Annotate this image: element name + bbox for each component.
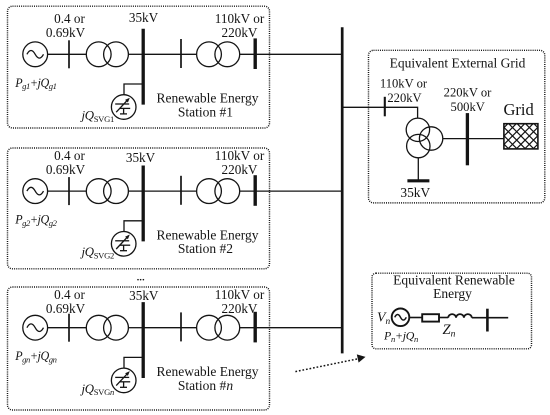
wire — [472, 317, 508, 319]
svg-text:Energy: Energy — [433, 286, 472, 301]
svg-text:35kV: 35kV — [126, 150, 156, 165]
grid equivalent hatched box — [504, 124, 538, 149]
svg-text:0.4 or: 0.4 or — [54, 148, 85, 163]
wire to main bus — [240, 327, 342, 329]
node bus 0.4/0.69kV — [68, 40, 70, 68]
main collector bus — [341, 27, 344, 353]
svg-text:jQSVG2: jQSVG2 — [80, 245, 115, 260]
svg-text:jQSVGn: jQSVGn — [80, 382, 115, 397]
bus 110/220kV station1 — [253, 38, 256, 69]
bus terminal renewable — [486, 309, 489, 332]
svg-text:0.69kV: 0.69kV — [46, 301, 86, 316]
svg-text:110kV or: 110kV or — [215, 287, 265, 302]
svg-text:Station #1: Station #1 — [178, 104, 233, 119]
svg-text:...: ... — [136, 270, 144, 285]
bus 110/220kV station n — [253, 312, 256, 343]
transformer Tn-2 — [197, 315, 222, 340]
svg-text:220kV or: 220kV or — [444, 86, 493, 100]
svg-text:Renewable Energy: Renewable Energy — [156, 91, 258, 106]
svg-text:Equivalent External Grid: Equivalent External Grid — [390, 56, 526, 71]
wire SVG branch — [124, 357, 143, 368]
bus 110/220kV station2 — [253, 175, 256, 206]
svg-text:Pn+jQn: Pn+jQn — [383, 329, 418, 344]
wire to main bus — [240, 190, 342, 192]
svg-text:Grid: Grid — [503, 100, 534, 119]
generator G2 — [23, 179, 48, 204]
svg-text:Renewable Energy: Renewable Energy — [156, 364, 258, 379]
renewable energy station 2 dashed box — [8, 148, 270, 269]
svg-text:Renewable Energy: Renewable Energy — [156, 227, 258, 242]
wire to main bus — [240, 53, 342, 55]
svg-text:110kV or: 110kV or — [215, 11, 265, 26]
inductor Zn — [448, 314, 472, 318]
transformer T2-2 — [197, 179, 222, 204]
renewable energy station n dashed box — [8, 287, 270, 410]
svg-text:220kV: 220kV — [222, 301, 258, 316]
svg-text:110kV or: 110kV or — [215, 148, 265, 163]
wire — [128, 190, 143, 192]
wire SVG branch — [124, 84, 143, 95]
wire from main bus to transformer — [342, 107, 418, 118]
wire SVG branch — [124, 221, 143, 232]
wire — [143, 190, 197, 192]
node bus 0.4/0.69kV — [68, 314, 70, 342]
wire — [409, 317, 422, 319]
wire — [143, 53, 197, 55]
svg-text:jQSVG1: jQSVG1 — [80, 108, 115, 123]
equivalent renewable energy dashed box — [372, 273, 532, 349]
wire to grid bus — [443, 138, 504, 140]
svg-text:Pg1+jQg1: Pg1+jQg1 — [14, 76, 56, 91]
three-winding transformer TE — [406, 118, 429, 141]
wire — [128, 327, 143, 329]
wire — [48, 327, 87, 329]
wire — [128, 53, 143, 55]
impedance Zn box — [422, 314, 439, 321]
generator G1 — [23, 42, 48, 67]
svg-text:35kV: 35kV — [129, 10, 159, 25]
svg-text:Station #n: Station #n — [178, 378, 233, 393]
svg-text:500kV: 500kV — [451, 100, 485, 114]
transformer T1-1 — [86, 42, 111, 67]
bus 35kV station n — [142, 302, 145, 378]
wire — [143, 327, 197, 329]
transformer Tn-1 — [86, 315, 111, 340]
svg-text:220kV: 220kV — [222, 25, 258, 40]
node tick — [180, 176, 182, 205]
svg-text:35kV: 35kV — [400, 185, 430, 200]
node tick — [180, 39, 182, 68]
SVG device n — [111, 368, 136, 393]
SVG device 2 — [111, 232, 136, 257]
node bus 0.4/0.69kV — [68, 177, 70, 205]
renewable energy station 1 dashed box — [8, 6, 270, 128]
svg-text:220kV: 220kV — [222, 162, 258, 177]
svg-text:35kV: 35kV — [129, 288, 159, 303]
bus 35kV station2 — [142, 166, 145, 242]
svg-text:Zn: Zn — [443, 322, 456, 340]
wire — [439, 317, 448, 319]
svg-text:0.69kV: 0.69kV — [46, 25, 86, 40]
dashed arrow to equivalent model — [295, 359, 358, 372]
35kV terminal bar — [407, 179, 429, 182]
bus 220/500kV — [466, 113, 469, 165]
svg-text:110kV or: 110kV or — [380, 77, 428, 91]
wire — [48, 190, 87, 192]
transformer T2-1 — [86, 179, 111, 204]
node tick — [180, 312, 182, 341]
bus 35kV station1 — [142, 29, 145, 105]
svg-text:0.69kV: 0.69kV — [46, 162, 86, 177]
svg-text:220kV: 220kV — [387, 91, 421, 105]
svg-text:0.4 or: 0.4 or — [54, 287, 85, 302]
svg-text:Pg2+jQg2: Pg2+jQg2 — [14, 213, 57, 228]
svg-text:Pgn+jQgn: Pgn+jQgn — [14, 349, 56, 364]
wire — [48, 53, 87, 55]
generator Gn — [23, 315, 48, 340]
svg-text:0.4 or: 0.4 or — [54, 11, 85, 26]
SVG device 1 — [111, 95, 136, 120]
source Vn — [392, 309, 410, 327]
svg-text:Vn: Vn — [377, 309, 390, 327]
node bus 110/220kV external — [384, 97, 386, 117]
transformer T1-2 — [197, 42, 222, 67]
equivalent external grid dashed box — [369, 50, 545, 203]
wire transformer to 35kV terminal — [417, 158, 419, 180]
svg-text:Station #2: Station #2 — [178, 241, 233, 256]
